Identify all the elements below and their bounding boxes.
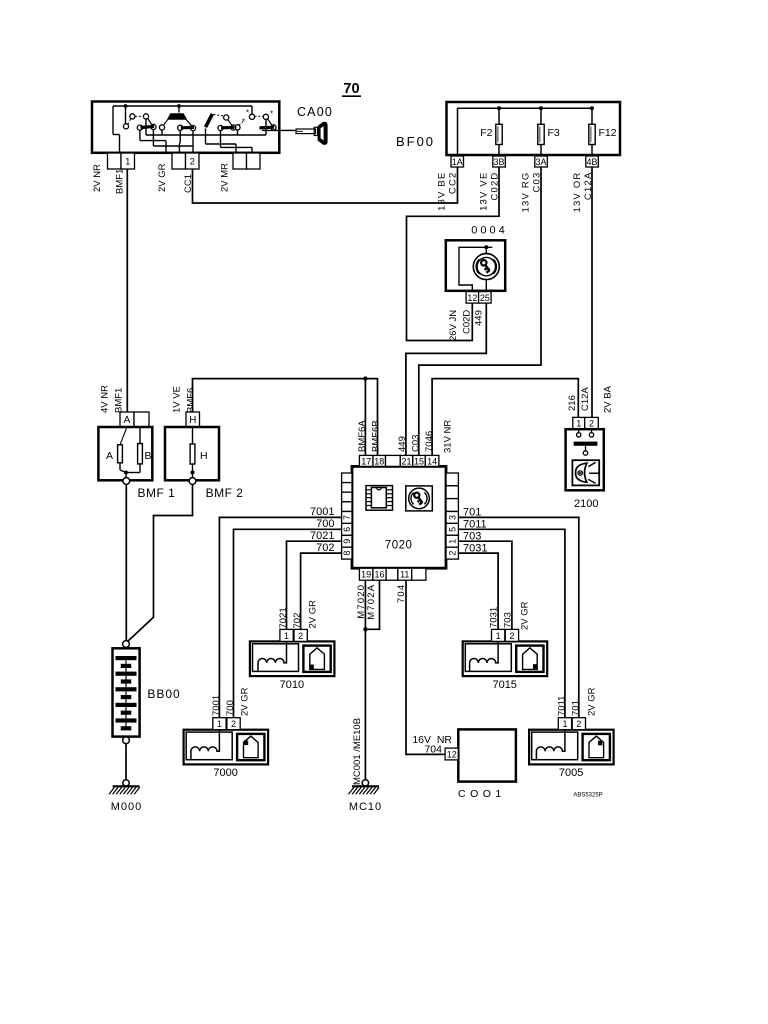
7020 pin 6 [342, 523, 352, 535]
junction [124, 471, 128, 475]
svg-text:H: H [200, 450, 208, 462]
svg-text:BMF6A: BMF6A [357, 420, 368, 452]
fuse F12 [589, 124, 595, 144]
svg-text:1: 1 [576, 419, 581, 429]
7015 lock box [516, 646, 543, 672]
svg-text:7000: 7000 [213, 767, 237, 779]
switch pin (blank) [247, 153, 261, 169]
svg-text:BMF 2: BMF 2 [206, 486, 244, 500]
7020 pin 18 [373, 455, 386, 466]
BF00 pin 1A [451, 156, 464, 167]
wire 7001: 7020 pin7 to 7000 pin1 [219, 517, 341, 717]
7020 pin blank [446, 486, 458, 499]
wire to pin 2 [192, 131, 194, 153]
wire C12A: BF00 4B to 2100 pin 2 [591, 167, 593, 417]
7010 door mark [310, 665, 314, 670]
svg-text:2V GR: 2V GR [308, 600, 319, 629]
svg-text:19: 19 [361, 570, 371, 580]
svg-text:1: 1 [284, 631, 289, 641]
fuse F2 [496, 124, 502, 144]
junction fuse F2 [497, 106, 501, 110]
fuse H [192, 427, 194, 444]
svg-text:B: B [145, 450, 152, 462]
svg-text:18: 18 [374, 456, 384, 466]
7000 door icon [244, 736, 259, 758]
svg-text:449: 449 [397, 436, 408, 452]
battery BB00 [113, 648, 140, 736]
wire 701: 7020 pin3 to 7005 pin2 [458, 517, 578, 717]
switch lever [181, 126, 194, 130]
wire internal bus 2 [146, 134, 266, 136]
svg-text:1: 1 [447, 539, 457, 544]
svg-text:12: 12 [467, 293, 477, 303]
svg-text:1A: 1A [452, 157, 463, 167]
svg-text:F2: F2 [480, 127, 492, 139]
wire 703: 7020 pin1 to 7015 pin2 [458, 541, 512, 630]
7020 pin 2 [446, 547, 458, 559]
svg-text:3B: 3B [494, 157, 505, 167]
7020 pin blank [446, 499, 458, 512]
svg-text:ABS5325P: ABS5325P [573, 793, 602, 799]
svg-text:4V NR: 4V NR [100, 385, 111, 413]
wire 702: 7020 pin8 to 7010 pin2 [301, 553, 342, 630]
svg-text:*: * [242, 118, 245, 127]
connector C001 housing [458, 729, 516, 781]
wire [237, 130, 239, 135]
svg-text:2V BA: 2V BA [603, 385, 614, 413]
svg-text:702: 702 [316, 542, 334, 554]
wire [139, 130, 141, 140]
svg-text:5: 5 [447, 527, 457, 532]
battery cells [116, 656, 137, 660]
svg-text:C02D: C02D [462, 310, 473, 334]
wire to key [262, 129, 295, 131]
7010 pin 2 [294, 629, 307, 641]
2100 pin 1 [573, 417, 585, 429]
wire to ground [125, 744, 127, 780]
svg-text:2V GR: 2V GR [157, 163, 168, 192]
junction M7020/M702A [363, 627, 367, 631]
7020 pin 17 [359, 455, 373, 466]
svg-text:9: 9 [342, 539, 352, 544]
svg-text:2: 2 [576, 719, 581, 729]
svg-text:15: 15 [414, 456, 424, 466]
wire 7031: 7020 pin2 to 7015 pin1 [458, 553, 498, 630]
svg-text:3: 3 [447, 515, 457, 520]
7010 lock box [303, 646, 330, 672]
switch contact group 4 [235, 125, 240, 130]
wire 7021: 7020 pin9 to 7010 pin1 [287, 541, 342, 630]
7020 pin 15 [413, 455, 426, 466]
svg-text:2: 2 [509, 631, 514, 641]
7000 pin 2 [227, 718, 240, 730]
svg-text:2: 2 [298, 631, 303, 641]
headlamp icon [576, 463, 587, 482]
svg-text:7020: 7020 [385, 540, 413, 552]
7005 coil box [532, 732, 578, 760]
7000 coil box [186, 732, 232, 760]
switch lever [141, 126, 155, 127]
svg-text:BF00: BF00 [396, 134, 435, 149]
wire C02D: BF00 3B to 0004 pin 12 [407, 167, 500, 341]
svg-text:MC10: MC10 [349, 801, 382, 813]
svg-text:2V GR: 2V GR [240, 687, 251, 716]
wire M7020: 7020 pin19 to ground MC10 [364, 580, 366, 780]
unit 7020 housing [352, 466, 446, 568]
door lock motor 7000 [184, 730, 269, 765]
svg-text:*: * [246, 109, 249, 118]
7010 coil box [253, 644, 299, 672]
svg-text:2: 2 [231, 719, 236, 729]
7020 pin blank [342, 473, 352, 483]
wire internal bus [113, 105, 252, 107]
7020 pin blank [386, 455, 401, 466]
0004 pin 12 [466, 292, 479, 304]
svg-text:2100: 2100 [574, 498, 598, 510]
svg-text:A: A [124, 415, 131, 426]
svg-text:7031: 7031 [489, 607, 500, 628]
7020 pin blank [342, 483, 352, 493]
BMF2 pin H [186, 412, 200, 427]
svg-text:2: 2 [190, 156, 195, 166]
svg-text:BB00: BB00 [147, 687, 180, 701]
BF00 pin 3A [535, 156, 548, 167]
7010 door icon [310, 648, 325, 670]
battery - terminal [123, 737, 130, 744]
svg-text:7010: 7010 [280, 679, 304, 691]
svg-text:700: 700 [225, 700, 236, 716]
fuse F3 [538, 124, 544, 144]
junction fuse F3 [539, 106, 543, 110]
wire 7011: 7020 pin5 to 7005 pin1 [458, 529, 565, 717]
7005 door icon [589, 736, 604, 758]
battery + terminal [123, 641, 130, 648]
wire 7046/216: 7020 pin 14 to 2100 pin 1 [432, 379, 578, 456]
7020 pin blank [342, 492, 352, 502]
wire 449: 0004 pin 25 to 7020 pin 21 [406, 303, 486, 455]
BMF1 pin A [120, 412, 134, 427]
svg-text:2V GR: 2V GR [587, 687, 598, 716]
7015 pin 1 [492, 629, 505, 641]
7020 pin 21 [400, 455, 413, 466]
svg-text:C03: C03 [411, 435, 422, 452]
7020 pin 9 [342, 535, 352, 547]
key icon CA00 [288, 129, 296, 131]
svg-text:1: 1 [217, 719, 222, 729]
wire [540, 108, 542, 124]
svg-text:2: 2 [447, 551, 457, 556]
svg-text:7: 7 [342, 515, 352, 520]
7015 pin 2 [505, 629, 518, 641]
7020 pin 7 [342, 512, 352, 524]
7020 pin 14 [425, 455, 439, 466]
wire [220, 131, 222, 148]
svg-text:7021: 7021 [278, 607, 289, 628]
junction BMF6 [363, 376, 367, 380]
key glyph [481, 260, 486, 265]
svg-text:7011: 7011 [557, 696, 568, 716]
svg-text:M7020: M7020 [356, 584, 367, 619]
wire BMF1 to battery [125, 484, 127, 640]
svg-text:BMF1: BMF1 [114, 388, 125, 413]
unit 0004 housing [446, 240, 505, 290]
wire [145, 119, 147, 135]
7005 pin 1 [558, 718, 571, 730]
svg-text:2V GR: 2V GR [520, 601, 531, 630]
2100 pin 2 [585, 417, 599, 429]
junction [177, 104, 181, 108]
switch pin (blank) [172, 153, 186, 169]
switch contact group 2 (filled cam) [167, 113, 188, 120]
BMF1 output terminal [123, 478, 130, 485]
fuse A [120, 427, 127, 445]
svg-text:8: 8 [342, 551, 352, 556]
wire BMF1: ignition pin1 down to BMF1 pin A [126, 169, 128, 412]
7000 door mark [244, 741, 248, 746]
svg-text:701: 701 [463, 507, 481, 519]
7020 pin blank [412, 568, 426, 580]
7015 coil [470, 641, 499, 671]
wire C03: BF00 3A to 7020 pin 15 [419, 167, 541, 455]
7020 pin 19 [359, 568, 373, 580]
0004 internal wiring [459, 247, 492, 291]
svg-text:F12: F12 [599, 127, 617, 139]
svg-text:70: 70 [343, 81, 359, 97]
svg-text:H: H [189, 415, 196, 426]
fuse holder BMF2 [165, 427, 219, 480]
svg-text:2: 2 [589, 419, 594, 429]
svg-text:7011: 7011 [463, 519, 487, 531]
7020 pin 5 [446, 523, 458, 535]
svg-text:21: 21 [402, 456, 412, 466]
svg-text:703: 703 [503, 612, 514, 628]
svg-text:F3: F3 [548, 127, 560, 139]
svg-text:2V MR: 2V MR [220, 163, 231, 192]
svg-text:14: 14 [427, 456, 437, 466]
svg-text:M000: M000 [111, 801, 143, 813]
ground M000 [123, 780, 129, 786]
svg-text:4B: 4B [587, 157, 598, 167]
svg-text:16: 16 [374, 570, 384, 580]
0004 transponder ring icon [473, 254, 499, 280]
svg-text:13V OR: 13V OR [572, 172, 583, 213]
7000 lock box [237, 734, 264, 760]
7020 pin 8 [342, 547, 352, 559]
svg-text:704: 704 [424, 744, 442, 756]
wire BMF6A branch [364, 379, 366, 456]
BMF1 pin blank [134, 412, 149, 427]
svg-text:26V JN: 26V JN [448, 310, 459, 341]
7005 door mark [598, 741, 602, 746]
7005 lock box [583, 734, 610, 760]
svg-text:31V NR: 31V NR [443, 420, 454, 453]
svg-text:17: 17 [361, 456, 371, 466]
svg-text:*: * [270, 110, 273, 119]
wire [591, 108, 593, 124]
fuse B [139, 427, 141, 444]
transponder ring icon [406, 486, 433, 511]
svg-text:704: 704 [396, 584, 407, 603]
wire [125, 106, 127, 124]
7020 pin 3 [446, 512, 458, 524]
7020 pin blank [342, 502, 352, 512]
switch lever [260, 126, 275, 130]
BMF2 output terminal [189, 478, 196, 485]
svg-text:13V BE: 13V BE [437, 172, 448, 211]
svg-text:BMF 1: BMF 1 [137, 486, 175, 500]
wire M702A: 7020 pin16 joins M7020 [365, 580, 379, 629]
svg-text:7005: 7005 [559, 767, 583, 779]
junction [191, 471, 195, 475]
svg-text:12: 12 [447, 749, 457, 759]
7020 pin 16 [373, 568, 386, 580]
svg-text:7015: 7015 [492, 679, 516, 691]
2100 contacts [578, 429, 580, 433]
svg-text:449: 449 [474, 310, 485, 326]
7015 door mark [533, 664, 537, 669]
svg-text:BMF6: BMF6 [186, 388, 197, 413]
svg-text:7046: 7046 [424, 431, 435, 452]
7020 pin blank [386, 568, 398, 580]
wire CC1/CC2: ignition pin2 to BF00 1A [193, 167, 458, 203]
wire BMF6: BMF2 pin H to 7020 pins 17/18 [193, 379, 378, 456]
svg-text:7001: 7001 [211, 695, 222, 716]
svg-text:1: 1 [562, 719, 567, 729]
svg-text:3A: 3A [536, 157, 547, 167]
switch pin (blank) [233, 153, 247, 169]
svg-text:1: 1 [125, 156, 130, 166]
svg-text:CA00: CA00 [297, 105, 333, 119]
door lock motor 7015 [463, 641, 548, 676]
wire [152, 130, 154, 147]
wire [161, 130, 163, 135]
wire 704: 7020 pin11 to C001 pin12 [406, 580, 445, 754]
7015 door icon [523, 648, 538, 670]
unit 2100 housing [566, 429, 604, 490]
svg-text:1V VE: 1V VE [172, 386, 183, 413]
svg-text:216: 216 [567, 395, 578, 411]
door lock motor 7010 [250, 641, 335, 676]
svg-text:6: 6 [342, 527, 352, 532]
2100 bar [574, 442, 598, 446]
svg-text:1: 1 [496, 631, 501, 641]
ignition switch CA00 housing [92, 102, 279, 153]
chip icon [366, 486, 393, 511]
svg-text:25: 25 [480, 293, 490, 303]
wire [498, 108, 500, 124]
fusebox BF00 housing [447, 102, 621, 155]
7020 pin blank [446, 473, 458, 486]
fuse holder BMF1 [98, 427, 152, 480]
svg-text:7021: 7021 [310, 530, 334, 542]
7005 coil [536, 730, 565, 760]
svg-text:13V RG: 13V RG [521, 172, 532, 213]
wire [179, 130, 181, 143]
svg-text:MC001 /ME10B: MC001 /ME10B [352, 718, 363, 785]
junction fuse F12 [590, 106, 594, 110]
7000 pin 1 [213, 718, 226, 730]
7020 pin 1 [446, 535, 458, 547]
wire [205, 129, 207, 145]
svg-text:2V NR: 2V NR [92, 164, 103, 192]
switch pin 1 [121, 153, 135, 169]
svg-text:702: 702 [292, 613, 303, 629]
svg-text:COO1: COO1 [458, 788, 506, 800]
2100 lamp box [572, 460, 599, 485]
7000 coil [191, 730, 219, 760]
svg-text:0004: 0004 [471, 225, 507, 237]
wire [498, 145, 500, 157]
wire [178, 106, 180, 113]
svg-text:700: 700 [316, 518, 334, 530]
switch contact group 1 [123, 124, 128, 129]
7005 pin 2 [572, 718, 585, 730]
svg-text:701: 701 [571, 700, 582, 716]
7010 pin 1 [280, 629, 293, 641]
svg-text:C12A: C12A [580, 387, 591, 411]
switch pin 2 [186, 153, 200, 169]
svg-text:7001: 7001 [310, 506, 334, 518]
svg-text:BMF6B: BMF6B [371, 420, 382, 452]
svg-text:A: A [106, 450, 113, 462]
lever bar [206, 114, 213, 127]
0004 pin 25 [479, 292, 492, 304]
ground MC10 [362, 780, 368, 786]
BF00 pin 3B [493, 156, 506, 167]
C001 pin 12 [445, 748, 458, 760]
svg-text:703: 703 [463, 531, 481, 543]
wire BMF2 to battery [128, 484, 193, 641]
junction [124, 104, 128, 108]
wire to pin 1A [457, 108, 459, 156]
wire 700: 7020 pin6 to 7000 pin2 [234, 529, 342, 717]
wire [591, 145, 593, 157]
svg-text:BMF1: BMF1 [115, 169, 126, 194]
BF00 pin 4B [586, 156, 599, 167]
7020 pin 11 [398, 568, 412, 580]
7010 coil [258, 641, 287, 671]
switch pin (blank) [108, 153, 122, 169]
svg-text:M702A: M702A [366, 584, 377, 620]
junction [484, 245, 488, 249]
svg-text:7031: 7031 [463, 543, 487, 555]
7015 coil box [465, 644, 511, 672]
switch lever [221, 126, 234, 130]
svg-text:13V VE: 13V VE [479, 172, 490, 211]
wire [540, 145, 542, 157]
svg-text:11: 11 [400, 570, 409, 580]
door lock motor 7005 [529, 730, 614, 765]
internal bus [458, 107, 593, 109]
